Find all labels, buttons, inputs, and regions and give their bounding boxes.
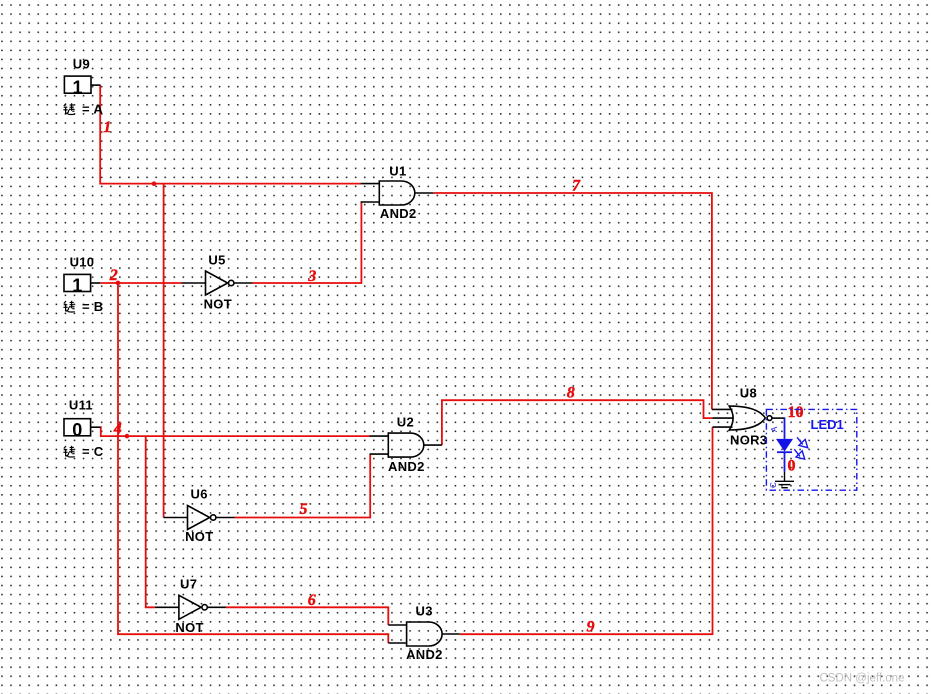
svg-text:A: A: [770, 426, 779, 432]
wire net 2 branch to U3: [118, 283, 388, 643]
svg-text:U1: U1: [389, 164, 406, 179]
svg-text:U8: U8: [740, 385, 757, 400]
svg-text:4: 4: [113, 421, 122, 438]
nor-gate U8: [712, 405, 785, 431]
wire net 1 branch to U6: [163, 184, 165, 518]
svg-text:U9: U9: [73, 57, 90, 72]
svg-text:AND2: AND2: [406, 647, 443, 662]
svg-text:1: 1: [72, 276, 82, 296]
selection box LED1: [766, 409, 856, 490]
svg-text:NOR3: NOR3: [730, 432, 767, 447]
svg-text:C: C: [769, 482, 778, 488]
svg-text:U11: U11: [69, 398, 93, 413]
wire net 4 branch to U7: [146, 436, 155, 607]
and-gate U2: [370, 433, 442, 457]
wire net 3: [253, 202, 362, 283]
not-gate U5: [182, 271, 253, 295]
svg-text:NOT: NOT: [185, 529, 213, 544]
svg-text:U3: U3: [416, 603, 433, 618]
svg-text:10: 10: [788, 404, 804, 421]
wire net 7: [433, 193, 712, 409]
svg-text:9: 9: [587, 618, 595, 635]
ground: [775, 472, 794, 488]
wire net 0 (LED cathode, selected blue): [784, 452, 786, 471]
wire net 8: [442, 400, 712, 445]
junction net 4: [125, 434, 130, 439]
svg-text:2: 2: [109, 267, 118, 284]
wire net 5: [235, 454, 371, 517]
junction net 2: [116, 281, 121, 286]
svg-text:1: 1: [103, 119, 111, 136]
switch U10: [64, 274, 100, 295]
svg-text:AND2: AND2: [380, 206, 417, 221]
svg-text:AND2: AND2: [388, 459, 425, 474]
wire net 9: [460, 427, 713, 634]
wire net 1: [100, 85, 361, 184]
svg-text:= C: = C: [82, 444, 104, 459]
svg-text:U2: U2: [397, 415, 414, 430]
not-gate U7: [155, 595, 226, 619]
svg-text:U5: U5: [208, 253, 225, 268]
switch U11: [64, 419, 101, 440]
svg-text:5: 5: [300, 501, 308, 518]
LED LED1: [776, 437, 808, 459]
value label 键 = A: [63, 102, 103, 117]
svg-text:= B: = B: [82, 299, 104, 314]
svg-text:CSDN @jeff.one: CSDN @jeff.one: [820, 673, 905, 685]
wire net 10 (LED anode, selected blue): [784, 418, 786, 439]
svg-text:8: 8: [567, 384, 575, 401]
and-gate U3: [388, 622, 460, 646]
svg-text:6: 6: [308, 592, 316, 609]
wire net 2: [100, 282, 182, 284]
wire net 4: [100, 427, 369, 436]
svg-text:1: 1: [72, 77, 82, 97]
svg-text:3: 3: [307, 268, 316, 285]
switch U9: [64, 76, 100, 97]
svg-text:NOT: NOT: [175, 620, 203, 635]
junction net 1: [152, 181, 157, 186]
svg-text:0: 0: [72, 420, 82, 440]
svg-text:7: 7: [572, 177, 581, 194]
svg-text:= A: = A: [82, 102, 103, 117]
svg-text:NOT: NOT: [204, 297, 232, 312]
svg-text:U7: U7: [180, 577, 197, 592]
and-gate U1: [361, 181, 434, 205]
not-gate U6: [164, 506, 235, 530]
value label 键 = C: [63, 444, 103, 459]
svg-text:U6: U6: [191, 487, 208, 502]
svg-text:0: 0: [788, 457, 796, 474]
svg-text:U10: U10: [70, 255, 95, 270]
value label 键 = B: [63, 299, 103, 314]
wire net 6: [226, 607, 388, 625]
svg-text:LED1: LED1: [811, 417, 844, 432]
